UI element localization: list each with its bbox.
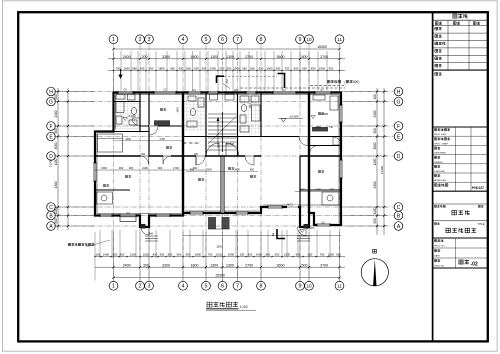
svg-text:2: 2 bbox=[139, 37, 142, 43]
window bottom mid1 bbox=[156, 214, 170, 217]
canopy line top right bbox=[310, 85, 344, 87]
svg-text:1:100: 1:100 bbox=[240, 305, 248, 309]
interior dimension row right bbox=[295, 191, 341, 193]
svg-text:850: 850 bbox=[120, 253, 125, 257]
svg-text:900: 900 bbox=[275, 253, 280, 257]
bathroom fixtures mid-left bbox=[187, 96, 204, 127]
svg-text:1500: 1500 bbox=[319, 67, 326, 71]
svg-text:2100: 2100 bbox=[142, 166, 148, 170]
svg-text:PROJ. ENG.: PROJ. ENG. bbox=[434, 134, 447, 136]
grid bubble 7 bottom bbox=[233, 281, 242, 290]
bath floor tile hatch right bbox=[240, 95, 261, 135]
svg-text:400: 400 bbox=[153, 253, 158, 257]
svg-text:750: 750 bbox=[330, 188, 335, 192]
svg-text:900: 900 bbox=[149, 67, 154, 71]
dimension column left bbox=[57, 88, 59, 230]
svg-text:H: H bbox=[49, 89, 53, 95]
svg-text:1300: 1300 bbox=[284, 253, 291, 257]
svg-text:C7: C7 bbox=[320, 88, 324, 92]
svg-text:10: 10 bbox=[306, 37, 312, 42]
svg-text:1300: 1300 bbox=[210, 55, 218, 59]
entry column blocks bbox=[208, 217, 216, 229]
grid line axis H bbox=[56, 91, 394, 93]
svg-text:550: 550 bbox=[329, 67, 334, 71]
window top right bedroom bbox=[315, 91, 331, 94]
svg-text:15300: 15300 bbox=[215, 274, 225, 278]
svg-text:550: 550 bbox=[308, 253, 313, 257]
svg-text:3600: 3600 bbox=[277, 263, 285, 267]
window top bath bbox=[246, 91, 256, 94]
interior wall right mid bbox=[309, 145, 341, 147]
window C5 top bbox=[118, 91, 133, 94]
svg-text:550: 550 bbox=[311, 67, 316, 71]
grid bubble 9 top bbox=[296, 35, 305, 44]
svg-text:900: 900 bbox=[190, 169, 195, 172]
svg-text:500: 500 bbox=[302, 55, 308, 59]
svg-text:16300: 16300 bbox=[317, 45, 327, 49]
svg-text:5: 5 bbox=[205, 284, 208, 290]
window bottom C2 bbox=[236, 211, 248, 214]
grid line axis 3 bbox=[148, 44, 150, 281]
grid bubble 2 top bbox=[136, 35, 145, 44]
dimension row axes top bbox=[108, 58, 345, 60]
kitchen counter left bbox=[97, 192, 113, 204]
dimension column right bbox=[376, 88, 378, 235]
grid line axis B bbox=[56, 215, 394, 217]
svg-text:550: 550 bbox=[259, 67, 264, 71]
grid line axis C bbox=[56, 206, 394, 208]
door leaf hall left bbox=[195, 156, 197, 165]
bathroom fixtures right unit axis 7-8 bbox=[240, 96, 260, 132]
svg-text:9: 9 bbox=[299, 37, 302, 43]
grid bubble 1 top bbox=[109, 35, 118, 44]
svg-text:1800: 1800 bbox=[158, 67, 165, 71]
grid bubble B left bbox=[47, 211, 56, 220]
svg-text:M4: M4 bbox=[149, 232, 153, 236]
room label living left bbox=[198, 178, 201, 180]
svg-text:F: F bbox=[49, 124, 52, 130]
svg-text:6: 6 bbox=[221, 37, 224, 43]
svg-text:550: 550 bbox=[242, 67, 247, 71]
door arc bath left bbox=[132, 118, 140, 126]
bath floor tile hatch mid bbox=[185, 95, 205, 132]
staircase break line bbox=[208, 116, 237, 144]
svg-text:3300: 3300 bbox=[162, 263, 170, 267]
svg-text:1150: 1150 bbox=[54, 207, 58, 214]
svg-text:1500: 1500 bbox=[101, 166, 107, 170]
svg-text:1300: 1300 bbox=[210, 263, 218, 267]
room label bedroom left bbox=[160, 108, 163, 110]
svg-text:900: 900 bbox=[294, 67, 299, 71]
interior wall axis 7 bbox=[237, 93, 239, 157]
grid bubble 11 bottom bbox=[335, 281, 344, 290]
grid line axis E bbox=[56, 136, 394, 138]
svg-text:DRAWN: DRAWN bbox=[434, 161, 443, 164]
grid bubble 6 top bbox=[218, 35, 227, 44]
door arc living right bbox=[245, 156, 254, 165]
svg-text:2700: 2700 bbox=[320, 263, 328, 267]
svg-text:700: 700 bbox=[189, 142, 194, 145]
svg-text:1840: 1840 bbox=[177, 107, 180, 113]
door arc hall left bbox=[196, 156, 205, 165]
interior wall D bbox=[95, 155, 261, 157]
svg-text:±0.000: ±0.000 bbox=[226, 142, 234, 146]
svg-text:F: F bbox=[397, 124, 400, 130]
dimension total 15300 bottom bbox=[114, 277, 340, 279]
sub project name 住宅楼 bbox=[452, 210, 457, 214]
interior dimension row D bbox=[95, 169, 206, 171]
grid line axis 8 bbox=[260, 44, 262, 281]
svg-text:1400: 1400 bbox=[256, 253, 263, 257]
grid bubble 11 top bbox=[335, 35, 344, 44]
stair landing door arcs bbox=[206, 143, 219, 156]
svg-text:5: 5 bbox=[205, 37, 208, 43]
svg-text:±0.000: ±0.000 bbox=[289, 115, 298, 119]
svg-text:TITLE: TITLE bbox=[477, 222, 484, 226]
svg-text:10: 10 bbox=[306, 284, 312, 289]
svg-text:550: 550 bbox=[179, 67, 184, 71]
svg-text:11300: 11300 bbox=[380, 166, 384, 174]
svg-text:2700: 2700 bbox=[245, 263, 253, 267]
sub project row bbox=[434, 205, 436, 207]
svg-text:550: 550 bbox=[336, 253, 341, 257]
svg-text:1150: 1150 bbox=[373, 207, 377, 214]
grid line axis A bbox=[56, 225, 394, 227]
window top mid bbox=[188, 91, 201, 94]
grid bubble G right bbox=[394, 97, 403, 106]
level mark -0.020 bedroom right bbox=[311, 116, 315, 119]
svg-text:3600: 3600 bbox=[277, 55, 285, 59]
svg-text:C1: C1 bbox=[282, 88, 286, 92]
svg-text:1800: 1800 bbox=[195, 253, 202, 257]
party wall axis 4 bbox=[182, 92, 184, 216]
door arc M3 bedroom2 bbox=[163, 156, 171, 164]
terrace outline right bbox=[183, 235, 341, 237]
svg-text:2: 2 bbox=[226, 79, 229, 84]
bath floor tile hatch left bbox=[115, 95, 139, 130]
svg-text:G: G bbox=[397, 99, 401, 105]
grid bubble G left bbox=[47, 97, 56, 106]
svg-text:300: 300 bbox=[54, 128, 58, 134]
svg-text:750: 750 bbox=[320, 253, 325, 257]
svg-text:11300: 11300 bbox=[49, 159, 53, 167]
title block header bbox=[453, 14, 457, 18]
svg-text:DATE: DATE bbox=[434, 254, 440, 257]
svg-text:-0.470: -0.470 bbox=[306, 226, 315, 230]
bed lower-left bedroom bbox=[98, 134, 123, 152]
canopy corner mark left bbox=[217, 76, 225, 83]
interior wall F bbox=[140, 125, 183, 127]
grid line axis 5 bbox=[205, 44, 207, 281]
dimension total 16300 top bbox=[114, 48, 340, 50]
svg-text:2: 2 bbox=[139, 284, 142, 290]
entry steps right bbox=[297, 236, 310, 241]
personnel rows bbox=[433, 135, 487, 137]
grid line axis G bbox=[56, 101, 394, 103]
svg-text:300: 300 bbox=[143, 263, 149, 267]
svg-text:620: 620 bbox=[195, 142, 200, 145]
svg-text:DESIGNER: DESIGNER bbox=[434, 153, 446, 155]
north needle bbox=[373, 259, 376, 286]
dimension row axes bottom bbox=[95, 266, 345, 268]
title row bbox=[434, 223, 436, 225]
grid bubble A right bbox=[394, 222, 403, 231]
svg-text:1300: 1300 bbox=[226, 55, 234, 59]
grid bubble 4 bottom bbox=[179, 281, 188, 290]
svg-text:2650: 2650 bbox=[299, 188, 305, 192]
entry steps left bbox=[145, 236, 158, 241]
svg-text:800: 800 bbox=[266, 253, 271, 257]
interior dim row living bbox=[186, 170, 258, 172]
svg-text:2400: 2400 bbox=[228, 253, 235, 257]
svg-text:2400: 2400 bbox=[123, 55, 131, 59]
svg-text:8: 8 bbox=[260, 37, 263, 43]
grid bubble H left bbox=[47, 87, 56, 96]
window bottom left bbox=[100, 214, 112, 217]
svg-text:1350: 1350 bbox=[315, 188, 321, 192]
canopy dashed outline bbox=[224, 75, 277, 77]
wardrobe dark block bbox=[154, 120, 170, 125]
svg-text:9: 9 bbox=[299, 284, 302, 290]
grid line axis D bbox=[56, 155, 394, 157]
room label living right bbox=[250, 175, 253, 177]
svg-text:550: 550 bbox=[220, 67, 225, 71]
svg-text:1150: 1150 bbox=[54, 158, 58, 165]
drawing number 建施-02 bbox=[459, 260, 463, 264]
svg-text:1000: 1000 bbox=[123, 67, 130, 71]
svg-text:3000: 3000 bbox=[373, 142, 377, 149]
svg-text:900: 900 bbox=[158, 166, 163, 170]
dimension row openings bottom bbox=[95, 256, 345, 258]
exterior wall outline bbox=[95, 93, 341, 228]
svg-text:600): 600) bbox=[353, 80, 359, 84]
grid line axis 10 bbox=[308, 44, 310, 281]
svg-text:3000: 3000 bbox=[54, 142, 58, 149]
window C4 bottom bbox=[120, 214, 136, 217]
svg-text:780: 780 bbox=[183, 142, 188, 145]
note downpipe symbol bbox=[119, 69, 122, 78]
bathroom fixtures top-left bbox=[116, 94, 137, 125]
party wall axis 10 bbox=[308, 93, 310, 214]
window bay bottom right C6 bbox=[317, 223, 330, 226]
svg-text:2700: 2700 bbox=[245, 55, 253, 59]
svg-text:400: 400 bbox=[54, 94, 58, 100]
svg-text:2600: 2600 bbox=[234, 169, 240, 172]
grid bubble C right bbox=[394, 203, 403, 212]
grid line axis 1 bbox=[113, 44, 115, 281]
room label kitchen left bbox=[103, 184, 106, 186]
svg-text:7: 7 bbox=[236, 37, 239, 43]
svg-text:700: 700 bbox=[208, 253, 213, 257]
door openings (gaps) bbox=[141, 125, 309, 157]
interior wall axis 3 bbox=[148, 92, 150, 156]
svg-text:900: 900 bbox=[119, 166, 124, 170]
svg-text:H: H bbox=[397, 89, 401, 95]
svg-text:M1: M1 bbox=[234, 88, 238, 92]
note entry step detail bottom left bbox=[68, 243, 71, 245]
svg-text:CHECKED: CHECKED bbox=[434, 171, 445, 173]
grid bubble D left bbox=[47, 152, 56, 161]
svg-text:1700: 1700 bbox=[173, 166, 179, 170]
svg-text:1000: 1000 bbox=[266, 67, 273, 71]
svg-text:500: 500 bbox=[302, 263, 308, 267]
interior wall axis 5 bbox=[205, 92, 207, 156]
door arc entry left bbox=[141, 227, 149, 235]
staircase arrow bbox=[217, 120, 219, 148]
svg-text:MC1: MC1 bbox=[287, 203, 293, 207]
entry pier left bbox=[141, 224, 146, 229]
door arc M3 kitchen bbox=[141, 156, 149, 164]
room label bedroom right bbox=[318, 112, 321, 114]
grid bubble B right bbox=[394, 211, 403, 220]
door arc entry right M4 bbox=[298, 227, 307, 236]
door arc living right bbox=[299, 137, 308, 146]
window right wall upper bbox=[339, 105, 342, 122]
svg-text:2: 2 bbox=[272, 232, 275, 237]
svg-text:M3: M3 bbox=[194, 152, 198, 156]
svg-text:4300: 4300 bbox=[373, 181, 377, 188]
grid line axis 9 bbox=[299, 44, 301, 281]
svg-text:1550: 1550 bbox=[210, 67, 217, 71]
svg-text:1800: 1800 bbox=[191, 263, 199, 267]
grid bubble 9 bottom bbox=[296, 281, 305, 290]
title block bbox=[432, 12, 434, 341]
svg-text:1840: 1840 bbox=[249, 103, 252, 109]
room label bedroom left2 bbox=[125, 175, 128, 177]
signature table bbox=[433, 25, 487, 27]
stairwell fixtures bbox=[210, 94, 235, 100]
interior wall bath bottom bbox=[114, 131, 150, 133]
room label bedroom right2 bbox=[318, 170, 321, 172]
svg-text:0.020: 0.020 bbox=[128, 114, 136, 118]
door arc bedroom left bbox=[149, 126, 158, 135]
window right wall lower bbox=[339, 160, 342, 178]
window bottom C3 bbox=[268, 205, 282, 208]
svg-text:550: 550 bbox=[302, 67, 307, 71]
drawing title 一层平面图 bbox=[446, 228, 451, 232]
svg-text:C: C bbox=[397, 205, 401, 211]
grid bubble 10 top bbox=[305, 35, 314, 44]
svg-text:900: 900 bbox=[250, 67, 255, 71]
svg-text:11: 11 bbox=[337, 284, 342, 289]
svg-text:D: D bbox=[49, 154, 53, 160]
svg-text:4: 4 bbox=[182, 37, 185, 43]
svg-text:4: 4 bbox=[182, 284, 185, 290]
svg-text:1800: 1800 bbox=[191, 55, 199, 59]
bay window frame bottom left bbox=[120, 217, 136, 222]
svg-text:1350: 1350 bbox=[315, 126, 321, 129]
window left wall bbox=[93, 163, 96, 181]
svg-text:C: C bbox=[49, 205, 53, 211]
interior wall axis 9 lower bbox=[299, 156, 301, 207]
entry pier right bbox=[304, 224, 309, 229]
north arrow bbox=[361, 259, 388, 286]
level mark 0.020 bath left bbox=[123, 118, 127, 121]
svg-text:1400: 1400 bbox=[103, 253, 110, 257]
interior wall E bbox=[183, 136, 341, 138]
interior wall kitchen bbox=[95, 189, 130, 191]
grid bubble A left bbox=[47, 222, 56, 231]
room label bedroom mid bbox=[166, 146, 169, 148]
svg-text:400: 400 bbox=[373, 94, 377, 100]
svg-text:680: 680 bbox=[132, 67, 137, 71]
svg-text:650: 650 bbox=[194, 67, 199, 71]
svg-text:C6: C6 bbox=[321, 221, 325, 225]
canopy corner mark right bbox=[278, 74, 285, 89]
grid bubble 5 bottom bbox=[202, 281, 211, 290]
svg-text:900: 900 bbox=[140, 67, 145, 71]
svg-text:4300: 4300 bbox=[54, 181, 58, 188]
drawing caption bbox=[207, 302, 212, 307]
grid bubble 5 top bbox=[202, 35, 211, 44]
svg-text:3: 3 bbox=[148, 37, 151, 43]
grid bubble 2 bottom bbox=[136, 281, 145, 290]
svg-text:DWG. NO: DWG. NO bbox=[434, 265, 444, 267]
door arc bedroom right bbox=[310, 146, 319, 155]
svg-text:900: 900 bbox=[250, 169, 255, 172]
grid line axis 4 bbox=[182, 44, 184, 281]
svg-text:PROJ. NO: PROJ. NO bbox=[434, 245, 445, 247]
level mark 0.000 living right bbox=[278, 118, 303, 120]
grid bubble 8 top bbox=[257, 35, 266, 44]
svg-text:1150: 1150 bbox=[373, 158, 377, 165]
grid bubble E right bbox=[394, 132, 403, 141]
svg-text:2400: 2400 bbox=[123, 263, 131, 267]
svg-text:1000: 1000 bbox=[328, 253, 335, 257]
svg-text:C2: C2 bbox=[163, 88, 167, 92]
grid line axis 7 bbox=[237, 44, 239, 281]
svg-text:550: 550 bbox=[202, 67, 207, 71]
svg-text:1300: 1300 bbox=[226, 263, 234, 267]
grid bubble 3 top bbox=[145, 35, 154, 44]
svg-text:900: 900 bbox=[186, 67, 191, 71]
svg-text:1000: 1000 bbox=[233, 67, 240, 71]
canopy dashed line top bbox=[240, 87, 345, 89]
window top stair bbox=[208, 91, 218, 94]
svg-text:C3: C3 bbox=[192, 88, 196, 92]
grid bubble 3 bottom bbox=[145, 281, 154, 290]
svg-text:750: 750 bbox=[285, 67, 290, 71]
staircase treads bbox=[208, 112, 237, 152]
svg-text:G: G bbox=[49, 99, 53, 105]
svg-text:C5: C5 bbox=[123, 88, 127, 92]
svg-text:3300: 3300 bbox=[162, 55, 170, 59]
exterior wall inner face bbox=[97, 95, 339, 224]
interior wall G bath bbox=[114, 101, 141, 103]
dimension row openings top bbox=[108, 69, 345, 71]
svg-text:180: 180 bbox=[240, 253, 245, 257]
svg-text:800: 800 bbox=[168, 253, 173, 257]
svg-text:2100: 2100 bbox=[130, 253, 137, 257]
level mark -0.470 bbox=[300, 230, 304, 233]
kitchen counter right bbox=[322, 192, 339, 205]
svg-text:1: 1 bbox=[112, 37, 115, 43]
svg-text:D: D bbox=[397, 154, 401, 160]
svg-text:P06-027: P06-027 bbox=[472, 186, 484, 190]
svg-text:3: 3 bbox=[148, 284, 151, 290]
grid line axis 11 bbox=[339, 44, 341, 281]
svg-text:550: 550 bbox=[276, 67, 281, 71]
svg-text:1: 1 bbox=[112, 284, 115, 290]
svg-text:500: 500 bbox=[54, 218, 58, 224]
svg-text:500: 500 bbox=[373, 218, 377, 224]
svg-text:900: 900 bbox=[129, 166, 134, 170]
project name row bbox=[434, 184, 437, 187]
svg-text:1700: 1700 bbox=[159, 138, 165, 141]
interior wall axis 2 bbox=[139, 92, 141, 132]
interior dim row left unit bbox=[114, 140, 184, 142]
window bottom C bbox=[190, 211, 203, 214]
